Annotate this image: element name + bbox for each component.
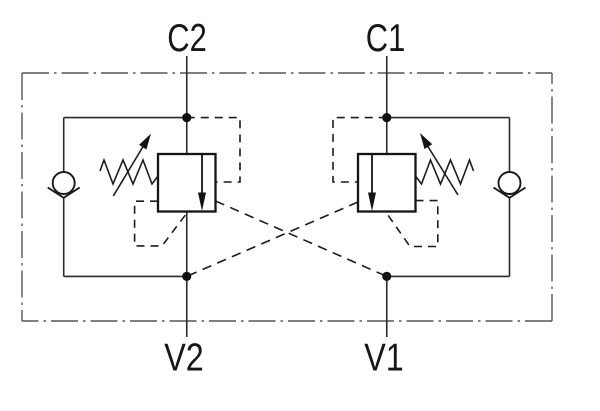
check valve CV1 (right): seat [494, 188, 526, 198]
wire: left valve bottom to V2 port [186, 212, 188, 338]
svg-text:C2: C2 [167, 16, 207, 60]
enclosure right edge [551, 73, 553, 321]
adjustment arrowhead (left) [139, 134, 151, 150]
wire: top-right branch to check valve [387, 117, 510, 119]
adjustment arrow shaft (right) [427, 145, 458, 195]
wire: right check valve lower lead [509, 198, 511, 277]
check valve CV2 (left): seat [48, 188, 80, 198]
wire: right check valve upper lead [509, 118, 511, 173]
drain loop (dashed) left valve [135, 201, 187, 246]
left valve internal flow arrowhead [198, 193, 206, 212]
junction node V1 [382, 272, 391, 281]
junction node V2 [182, 272, 191, 281]
crossing pilot line (dashed) left valve to V1 node [216, 201, 387, 276]
wire: C1 port line down to right valve [386, 56, 388, 154]
counterbalance valve body (right) [358, 154, 416, 212]
enclosure (valve block boundary, dash-dot): top edge [22, 72, 552, 74]
counterbalance valve body (left) [158, 154, 216, 212]
adjustment arrowhead (right) [420, 133, 432, 149]
pilot line (dashed) from C2 node to left valve right side [187, 118, 240, 182]
wire: left check valve lower lead [63, 198, 65, 277]
svg-text:C1: C1 [366, 16, 406, 60]
junction node C2 [182, 113, 191, 122]
pilot line (dashed) from C1 node to right valve left side [333, 118, 387, 182]
svg-text:V1: V1 [364, 335, 404, 379]
wire: C2 port line down to left valve [186, 56, 188, 154]
spring (left valve) [100, 160, 158, 184]
right valve internal flow arrowhead [368, 193, 376, 212]
enclosure left edge [21, 73, 23, 321]
wire: top-left branch to check valve [64, 117, 187, 119]
check valve CV1 (right): ball [499, 172, 521, 194]
adjustment arrow shaft (left) [113, 145, 144, 196]
crossing pilot line (dashed) right valve to V2 node [187, 202, 358, 276]
check valve CV2 (left): ball [53, 172, 75, 194]
junction node C1 [382, 113, 391, 122]
left valve internal flow line [201, 155, 203, 195]
wire: right valve bottom to V1 port [386, 276, 388, 337]
wire: bottom-left branch from check valve [64, 275, 187, 277]
svg-text:V2: V2 [164, 335, 204, 379]
enclosure bottom edge [22, 320, 552, 322]
drain loop (dashed) right valve [387, 201, 438, 247]
spring (right valve) [416, 160, 474, 184]
right valve internal flow line [371, 155, 373, 195]
wire: bottom-right branch from check valve [387, 275, 510, 277]
wire: left check valve upper lead [63, 118, 65, 173]
